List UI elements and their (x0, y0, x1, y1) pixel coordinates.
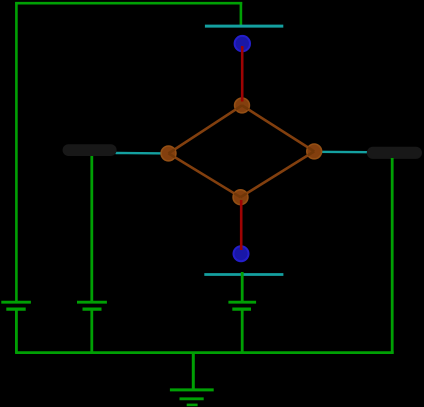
wire: top horizontal from left rail to top terminal (15, 2, 242, 5)
node: bridge top junction (235, 98, 250, 113)
wire: short drop into top terminal bar (240, 2, 243, 27)
wire: ground stem (192, 353, 195, 390)
wire: stem from left label down to capacitor C2 (90, 156, 93, 301)
ground bar 2 (180, 397, 204, 400)
wire: teal lead, right bridge node to right label (314, 151, 369, 154)
label plate (left) (63, 144, 117, 156)
wire: red lead, bridge bottom to bottom port (240, 200, 243, 250)
capacitor C1 (left rail) top plate (1, 301, 31, 304)
label plate (right) (367, 147, 422, 159)
wire: C3 to bus (241, 309, 244, 353)
ground bar 3 (187, 404, 198, 407)
wire: C1 to bus (15, 309, 18, 353)
node: bottom port (blue) (234, 246, 249, 261)
ground bar 1 (170, 388, 214, 391)
capacitor C2 bottom plate (83, 308, 102, 311)
wire: stem from bottom terminal bar to capacitor C3 (241, 272, 244, 301)
terminal bar (bottom) (204, 273, 283, 276)
node: bridge right junction (307, 144, 322, 159)
wire: left vertical rail (15, 2, 18, 301)
wire: red lead, top port to bridge top (241, 46, 244, 102)
bridge arm: bottom-right (241, 151, 315, 197)
node: top port (blue) (235, 36, 250, 51)
node: bridge left junction (161, 146, 176, 161)
bridge arm: bottom-left (169, 153, 241, 197)
wire: bottom ground bus (15, 351, 394, 354)
wire: teal lead, left label to left bridge node (116, 152, 169, 155)
bridge arm: top-right (242, 105, 314, 151)
capacitor C1 bottom plate (6, 308, 25, 311)
capacitor C3 top plate (228, 301, 256, 304)
terminal bar (top) (205, 25, 283, 28)
capacitor C3 bottom plate (232, 308, 251, 311)
capacitor C2 top plate (77, 301, 107, 304)
bridge arm: top-left (169, 105, 243, 153)
wire: stem from right label down to ground bus (391, 158, 394, 354)
wire: C2 to bus (90, 309, 93, 353)
node: bridge bottom junction (233, 190, 248, 205)
